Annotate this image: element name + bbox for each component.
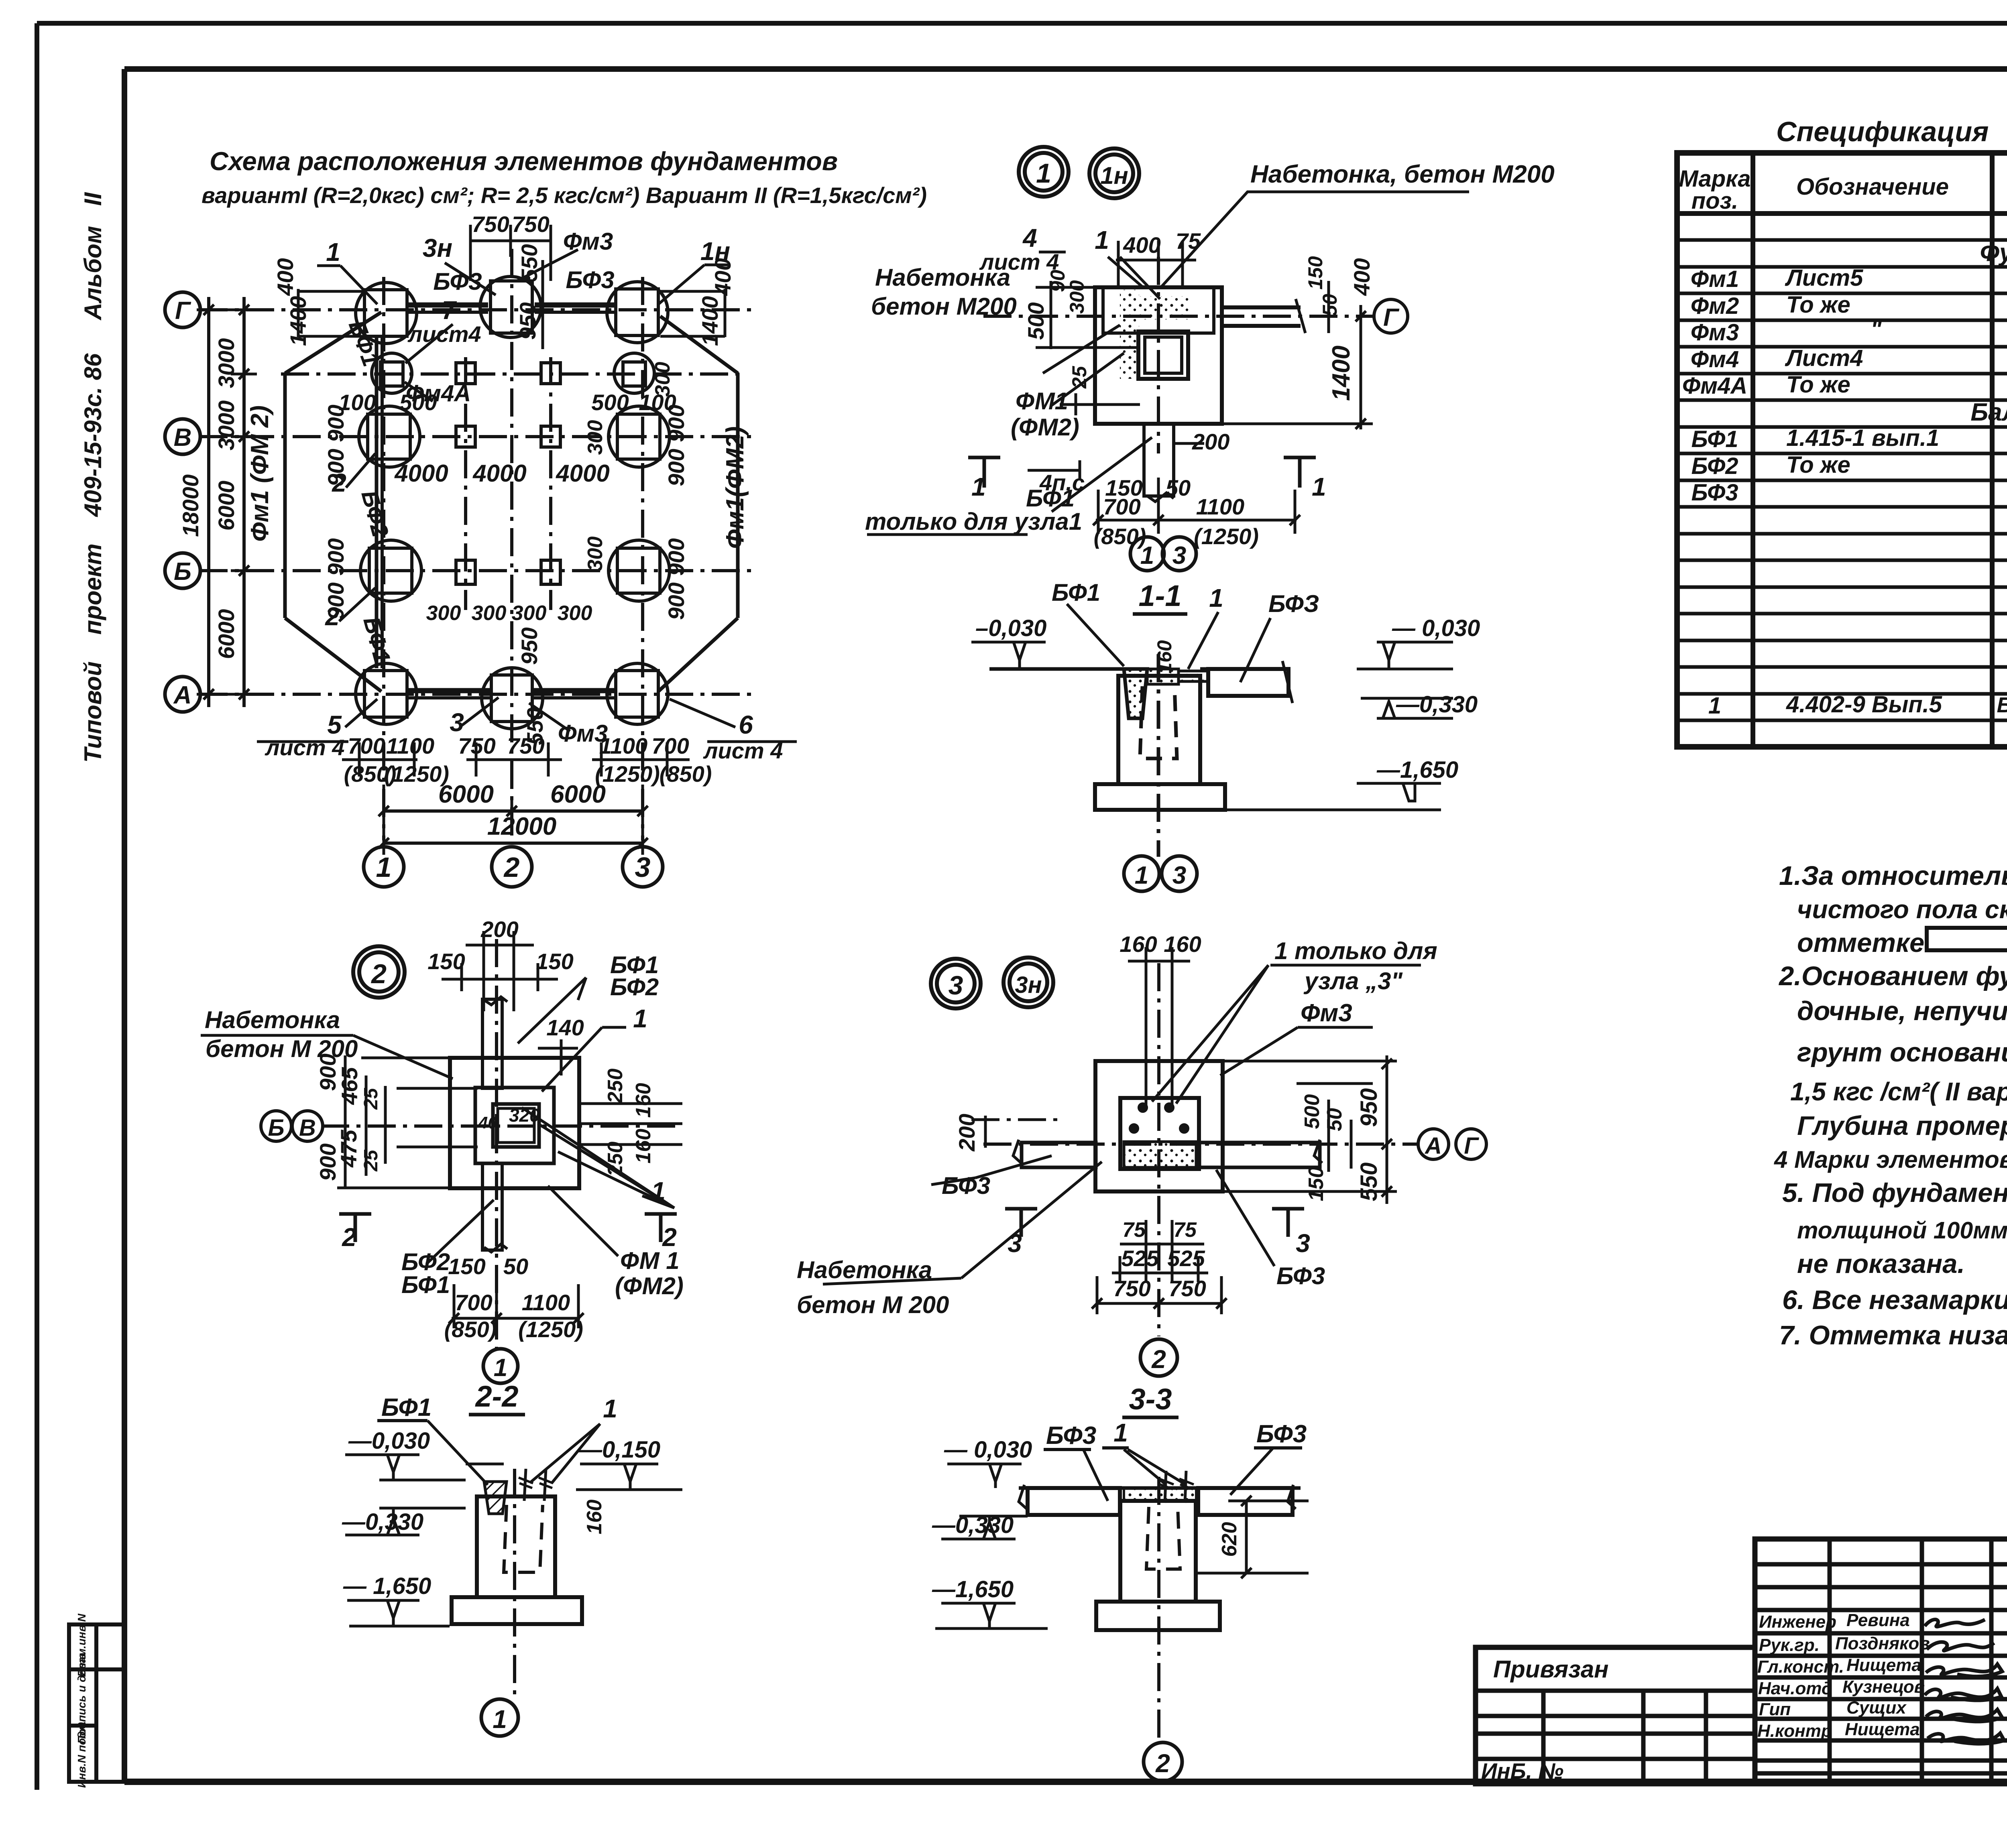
svg-text:1,5 кгс /см²( II вариант). Г: 1,5 кгс /см²( II вариант). Грунтовые Вод…	[1790, 1077, 2007, 1106]
svg-text:лист4: лист4	[407, 321, 481, 347]
svg-text:(850): (850)	[1094, 524, 1146, 549]
svg-text:4 Марки элементов и размер: 4 Марки элементов и размеры в скобках да…	[1774, 1146, 2007, 1173]
svg-text:БФ3: БФ3	[1256, 1420, 1307, 1448]
svg-text:Набетонка: Набетонка	[875, 264, 1010, 291]
svg-text:550: 550	[1356, 1163, 1382, 1202]
svg-text:160: 160	[632, 1083, 655, 1118]
svg-text:Фм3: Фм3	[1301, 999, 1352, 1027]
svg-text:750: 750	[512, 211, 549, 237]
svg-text:Поздняков: Поздняков	[1835, 1634, 1930, 1653]
svg-text:Набетонка: Набетонка	[205, 1006, 340, 1033]
svg-text:2.Основанием фундаментов с: 2.Основанием фундаментов служат грунты н…	[1778, 961, 2007, 991]
svg-text:1: 1	[493, 1705, 507, 1734]
svg-text:2: 2	[370, 959, 387, 989]
svg-text:Глубина промерзания принята: Глубина промерзания принята 1,4 м.	[1797, 1111, 2007, 1141]
svg-text:900: 900	[323, 582, 348, 620]
svg-text:1100: 1100	[522, 1290, 570, 1315]
svg-text:6: 6	[739, 710, 753, 739]
svg-text:6000: 6000	[438, 781, 494, 808]
svg-text:Нач.отд: Нач.отд	[1758, 1679, 1832, 1698]
svg-text:25: 25	[360, 1088, 382, 1110]
svg-text:1: 1	[1095, 226, 1109, 254]
svg-text:4000: 4000	[556, 460, 609, 487]
svg-text:3: 3	[450, 708, 464, 737]
svg-text:300: 300	[584, 537, 607, 571]
svg-text:1: 1	[1209, 583, 1223, 612]
svg-text:525: 525	[1167, 1246, 1205, 1271]
svg-text:То же: То же	[1786, 452, 1850, 478]
svg-text:200: 200	[480, 917, 518, 942]
svg-text:160: 160	[1120, 931, 1157, 957]
svg-text:БФ3: БФ3	[566, 266, 614, 293]
svg-text:3-3: 3-3	[1129, 1382, 1172, 1416]
svg-text:БФ1: БФ1	[344, 317, 384, 370]
svg-text:900: 900	[664, 582, 689, 620]
svg-text:300: 300	[472, 602, 507, 625]
svg-text:БФ2: БФ2	[1691, 453, 1738, 479]
svg-text:—0,330: —0,330	[342, 1509, 423, 1535]
svg-text:550: 550	[522, 707, 548, 745]
svg-text:900: 900	[664, 405, 689, 442]
svg-text:150: 150	[448, 1254, 485, 1279]
svg-text:Сущих: Сущих	[1846, 1698, 1907, 1718]
svg-text:700: 700	[651, 733, 689, 758]
svg-text:950: 950	[515, 302, 540, 340]
svg-text:Фм4А: Фм4А	[1682, 373, 1747, 399]
svg-text:—1,650: —1,650	[932, 1576, 1014, 1602]
svg-text:—0,330: —0,330	[932, 1512, 1014, 1538]
svg-text:400: 400	[1349, 258, 1374, 296]
svg-text:Нищета: Нищета	[1846, 1655, 1922, 1675]
svg-text:300: 300	[512, 602, 547, 625]
svg-text:1400: 1400	[285, 296, 311, 346]
svg-text:Н.контр: Н.контр	[1757, 1721, 1832, 1741]
svg-text:950: 950	[1356, 1088, 1382, 1127]
svg-text:465: 465	[337, 1067, 362, 1105]
svg-text:300: 300	[1066, 280, 1088, 314]
svg-text:700: 700	[1103, 494, 1140, 519]
svg-text:300: 300	[426, 602, 461, 625]
svg-text:750: 750	[1113, 1276, 1150, 1301]
svg-text:4000: 4000	[472, 460, 526, 487]
svg-text:2-2: 2-2	[475, 1380, 519, 1413]
svg-text:7. Отметка низа фундаменто: 7. Отметка низа фундаментов — 1.650	[1779, 1320, 2007, 1350]
svg-text:4: 4	[1022, 224, 1037, 252]
svg-text:В: В	[174, 424, 192, 451]
svg-text:Инв.N подл.: Инв.N подл.	[75, 1721, 88, 1788]
svg-text:5. Под фундаменты выполнить: 5. Под фундаменты выполнить бетонную под…	[1782, 1178, 2007, 1208]
svg-text:В: В	[299, 1115, 316, 1141]
svg-text:50: 50	[503, 1254, 528, 1279]
svg-text:950: 950	[517, 627, 542, 665]
svg-text:40: 40	[478, 1113, 497, 1132]
svg-text:400: 400	[273, 258, 298, 296]
svg-text:Лист4: Лист4	[1785, 345, 1863, 371]
svg-text:только для узла1: только для узла1	[865, 508, 1082, 535]
svg-text:Фм1: Фм1	[1691, 266, 1739, 292]
svg-text:200: 200	[954, 1114, 979, 1151]
svg-text:300: 300	[651, 362, 674, 397]
svg-text:лист 4: лист 4	[703, 738, 783, 763]
svg-text:3: 3	[635, 852, 651, 883]
svg-text:400: 400	[1123, 232, 1160, 258]
svg-text:2: 2	[1151, 1345, 1166, 1374]
svg-text:525: 525	[1121, 1246, 1159, 1271]
svg-text:То же: То же	[1786, 372, 1850, 398]
svg-text:—1,650: —1,650	[1376, 757, 1458, 783]
svg-text:(1250): (1250)	[1194, 524, 1259, 549]
svg-text:500: 500	[1301, 1094, 1324, 1129]
svg-text:6000: 6000	[214, 609, 239, 659]
svg-text:БФ2: БФ2	[610, 974, 659, 1000]
svg-text:1н: 1н	[1100, 162, 1128, 189]
svg-text:Балка фундаментные: Балка фундаментные	[1970, 398, 2007, 426]
svg-text:Набетонка: Набетонка	[797, 1256, 932, 1283]
svg-text:1400: 1400	[1327, 346, 1355, 401]
svg-text:Г: Г	[175, 297, 191, 325]
svg-text:ФМ1: ФМ1	[1016, 388, 1068, 415]
svg-text:750: 750	[472, 211, 509, 237]
svg-text:3: 3	[1296, 1229, 1310, 1258]
svg-text:": "	[1871, 316, 1882, 342]
svg-text:бетон М200: бетон М200	[871, 293, 1017, 320]
svg-text:1: 1	[971, 472, 986, 501]
svg-text:(1250): (1250)	[518, 1317, 583, 1342]
svg-text:лист 4: лист 4	[265, 735, 345, 760]
svg-text:900: 900	[323, 405, 348, 442]
svg-text:160: 160	[583, 1500, 606, 1535]
svg-text:Фм4: Фм4	[1691, 346, 1739, 372]
svg-text:Г: Г	[1383, 304, 1400, 331]
svg-text:1100: 1100	[599, 733, 647, 758]
svg-text:То же: То же	[1786, 292, 1850, 318]
svg-text:БФ3: БФ3	[1276, 1262, 1325, 1289]
svg-text:1: 1	[326, 238, 340, 266]
svg-text:500: 500	[591, 390, 629, 415]
svg-text:25: 25	[360, 1149, 382, 1172]
svg-text:750: 750	[1168, 1276, 1206, 1301]
svg-text:1.За относительную отметку: 1.За относительную отметку 0,000 принята…	[1779, 861, 2007, 891]
svg-text:–0,030: –0,030	[975, 615, 1046, 641]
svg-text:1100: 1100	[386, 733, 434, 758]
svg-text:— 0,030: — 0,030	[1392, 615, 1480, 641]
svg-text:Фм1 (ФМ 2): Фм1 (ФМ 2)	[246, 405, 274, 542]
svg-text:толщиной 100мм из бетона М: толщиной 100мм из бетона М50, которая на…	[1797, 1217, 2007, 1244]
svg-text:25: 25	[1068, 366, 1091, 389]
svg-text:50: 50	[1323, 1108, 1346, 1131]
svg-text:300: 300	[558, 602, 592, 625]
svg-text:вариантI (R=2,0кгс) см²; R= 2: вариантI (R=2,0кгс) см²; R= 2,5 кгс/см²)…	[202, 183, 927, 208]
svg-text:(ФМ2): (ФМ2)	[615, 1273, 684, 1299]
svg-text:1 только для: 1 только для	[1274, 937, 1437, 964]
svg-text:3000: 3000	[214, 338, 239, 388]
svg-text:Фм2: Фм2	[1691, 293, 1739, 319]
svg-text:3000: 3000	[214, 401, 239, 451]
svg-text:12000: 12000	[487, 813, 556, 840]
svg-text:150: 150	[427, 949, 465, 974]
svg-text:2: 2	[503, 852, 520, 883]
svg-text:— 1,650: — 1,650	[343, 1573, 431, 1599]
svg-text:150: 150	[1304, 256, 1327, 290]
svg-text:(850): (850)	[660, 761, 712, 787]
svg-text:6. Все незамаркированные ф: 6. Все незамаркированные фундаменты Фм4	[1782, 1285, 2007, 1315]
svg-text:БФ3: БФ3	[942, 1172, 990, 1199]
svg-text:50: 50	[1319, 294, 1341, 316]
svg-text:А: А	[173, 681, 192, 709]
svg-text:150: 150	[536, 949, 573, 974]
svg-text:1: 1	[1036, 158, 1051, 189]
svg-text:Инженер: Инженер	[1759, 1612, 1836, 1632]
svg-text:50: 50	[1166, 475, 1191, 500]
svg-text:160: 160	[632, 1129, 655, 1164]
svg-text:7: 7	[442, 296, 457, 325]
svg-text:1: 1	[494, 1354, 507, 1382]
svg-text:75: 75	[1176, 228, 1201, 254]
svg-text:Обозначение: Обозначение	[1796, 174, 1949, 200]
svg-text:ФМ 1: ФМ 1	[620, 1247, 680, 1274]
svg-text:900: 900	[315, 1143, 340, 1181]
svg-text:6000: 6000	[214, 481, 239, 531]
svg-text:Гл.конст.: Гл.конст.	[1757, 1657, 1844, 1677]
svg-text:Б: Б	[174, 558, 191, 586]
svg-text:400: 400	[710, 258, 735, 296]
svg-text:не показана.: не показана.	[1797, 1249, 1965, 1279]
svg-text:900: 900	[323, 538, 348, 575]
svg-text:Фм1(ФМ2): Фм1(ФМ2)	[721, 426, 749, 549]
svg-text:150: 150	[1305, 1167, 1328, 1202]
svg-text:Фм3: Фм3	[1691, 319, 1739, 346]
svg-text:БФ3: БФ3	[433, 268, 482, 295]
svg-text:1: 1	[603, 1394, 617, 1423]
svg-text:3н: 3н	[1015, 972, 1042, 998]
svg-text:Фм3: Фм3	[563, 228, 613, 255]
svg-text:3: 3	[949, 970, 963, 1000]
svg-text:БФ2: БФ2	[356, 488, 393, 540]
svg-text:1: 1	[1135, 862, 1148, 889]
svg-text:500: 500	[1023, 302, 1048, 340]
svg-text:160: 160	[1153, 640, 1176, 674]
svg-text:(ФМ2): (ФМ2)	[1011, 414, 1079, 441]
svg-text:А: А	[1424, 1133, 1442, 1159]
svg-text:Лист5: Лист5	[1785, 265, 1863, 291]
svg-text:БФЗ: БФЗ	[1268, 590, 1319, 617]
svg-text:3н: 3н	[423, 234, 452, 262]
svg-text:550: 550	[517, 244, 542, 281]
svg-text:1: 1	[651, 1177, 666, 1206]
svg-text:1: 1	[1708, 693, 1721, 719]
svg-text:ИнБ. №: ИнБ. №	[1481, 1759, 1563, 1783]
svg-text:1: 1	[1113, 1418, 1128, 1447]
svg-text:250: 250	[604, 1069, 627, 1104]
svg-text:дочные, непучинистые с расч: дочные, непучинистые с расчетным давлени…	[1797, 996, 2007, 1026]
svg-text:Набетонка, бетон М200: Набетонка, бетон М200	[1250, 161, 1555, 188]
svg-text:700: 700	[455, 1290, 492, 1315]
svg-text:Типовой проект 409-15-93: Типовой проект 409-15-93с. 86 Альбом II	[79, 192, 106, 762]
svg-text:Фундаменты монол.: Фундаменты монол.	[1980, 239, 2007, 266]
svg-text:4000: 4000	[394, 460, 448, 487]
svg-text:2: 2	[342, 1223, 356, 1252]
svg-text:18000: 18000	[178, 474, 203, 537]
svg-text:Привязан: Привязан	[1493, 1656, 1608, 1683]
svg-text:6000: 6000	[550, 781, 606, 808]
svg-text:грунт основания 2.0 кгс/см²: грунт основания 2.0 кгс/см², 2,5кгс/см² …	[1797, 1037, 2007, 1067]
svg-text:чистого пола склада, что с: чистого пола склада, что соответствует а…	[1797, 895, 2007, 924]
svg-text:БФ1: БФ1	[1052, 579, 1100, 606]
svg-text:Спецификация элементов фун: Спецификация элементов фундаментов	[1776, 116, 2007, 147]
svg-text:поз.: поз.	[1691, 188, 1738, 214]
svg-text:3: 3	[1172, 542, 1186, 569]
svg-text:250: 250	[604, 1142, 627, 1177]
svg-text:1-1: 1-1	[1139, 579, 1182, 612]
svg-text:(850): (850)	[444, 1317, 497, 1342]
svg-text:БФ3: БФ3	[1691, 480, 1738, 506]
svg-text:900: 900	[323, 449, 348, 486]
svg-text:Ревина: Ревина	[1846, 1610, 1910, 1630]
svg-text:Г: Г	[1464, 1133, 1479, 1159]
svg-text:1.415-1 вып.1: 1.415-1 вып.1	[1786, 425, 1939, 451]
svg-text:1400: 1400	[697, 296, 723, 346]
svg-text:Схема расположения элементо: Схема расположения элементов фундаментов	[210, 146, 838, 176]
svg-text:Гип: Гип	[1759, 1700, 1791, 1719]
svg-text:1: 1	[376, 852, 392, 883]
svg-text:БФ1: БФ1	[381, 1394, 432, 1421]
svg-text:500: 500	[399, 390, 437, 415]
svg-text:Б: Б	[268, 1115, 284, 1141]
svg-text:300: 300	[584, 420, 607, 455]
svg-text:75: 75	[1122, 1218, 1146, 1242]
svg-text:—0,150: —0,150	[578, 1437, 660, 1463]
svg-text:3: 3	[1172, 862, 1186, 889]
svg-text:Рук.гр.: Рук.гр.	[1759, 1635, 1820, 1655]
svg-text:3: 3	[1008, 1229, 1022, 1258]
svg-text:БФ1: БФ1	[358, 614, 395, 666]
svg-text:200: 200	[1192, 429, 1229, 454]
svg-text:бетон М 200: бетон М 200	[797, 1291, 949, 1318]
svg-text:БФ1: БФ1	[401, 1271, 450, 1298]
svg-text:Болт М24х780 тип 1: Болт М24х780 тип 1	[1997, 693, 2007, 717]
svg-text:160: 160	[1164, 931, 1201, 957]
svg-text:320: 320	[509, 1105, 540, 1126]
svg-text:отметке: отметке	[1797, 928, 1924, 958]
svg-text:620: 620	[1218, 1522, 1241, 1557]
svg-text:4.402-9 Вып.5: 4.402-9 Вып.5	[1786, 691, 1942, 718]
svg-text:2: 2	[1155, 1749, 1170, 1778]
svg-text:—0,330: —0,330	[1396, 691, 1478, 718]
svg-text:Нищета: Нищета	[1845, 1720, 1920, 1739]
svg-text:узла „3": узла „3"	[1303, 968, 1403, 994]
svg-text:Кузнецов: Кузнецов	[1842, 1677, 1925, 1697]
svg-text:— 0,030: — 0,030	[944, 1437, 1032, 1463]
svg-text:—0,030: —0,030	[348, 1428, 430, 1454]
svg-text:БФ1: БФ1	[1691, 426, 1738, 452]
svg-text:1100: 1100	[1196, 494, 1244, 519]
svg-text:750: 750	[458, 733, 495, 758]
svg-text:1: 1	[1312, 472, 1326, 501]
svg-text:75: 75	[1173, 1218, 1197, 1242]
svg-text:900: 900	[664, 538, 689, 575]
svg-text:1: 1	[1140, 542, 1154, 569]
svg-text:1: 1	[633, 1004, 647, 1033]
svg-text:БФ1: БФ1	[1026, 485, 1075, 512]
svg-text:БФ3: БФ3	[1046, 1422, 1096, 1450]
svg-text:140: 140	[546, 1015, 584, 1040]
svg-text:700: 700	[348, 733, 385, 758]
svg-text:900: 900	[664, 449, 689, 486]
